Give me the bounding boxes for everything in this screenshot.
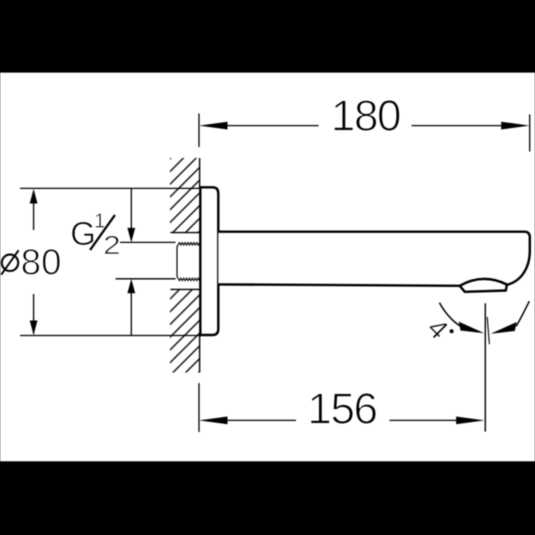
dim ø80: top extension line [20, 187, 199, 189]
dim 180: line right segment [412, 125, 504, 127]
dim 156: left arrow [199, 417, 228, 425]
angle arc left arrowhead [459, 322, 485, 334]
threaded pipe G1/2: top zigzag [178, 243, 200, 245]
dim 180: right arrow [501, 122, 530, 130]
dim 180: left arrow [199, 122, 228, 130]
G1/2 dim: up arrow from thread bottom [127, 279, 135, 294]
dim ø80: lower shaft [33, 294, 35, 334]
wall face line lower [199, 334, 201, 373]
dim ø80: label [1, 242, 61, 283]
svg-text:2: 2 [103, 230, 121, 260]
angle arc right arrowhead [491, 322, 517, 334]
wall hole bottom line [170, 288, 199, 290]
tilted 4-degree line [487, 317, 489, 344]
dim ø80: upper shaft [33, 191, 35, 230]
svg-text:156: 156 [307, 385, 376, 434]
dim 156: left extension line [198, 383, 200, 432]
threaded pipe left edge [177, 245, 178, 278]
threaded pipe G1/2: bottom zigzag [178, 278, 200, 280]
spout body outline [218, 232, 530, 292]
G1/2 dim: upper shaft [130, 188, 132, 230]
svg-text:80: 80 [21, 242, 62, 283]
wall hole top line [170, 232, 199, 234]
wall lower hatch block [170, 290, 200, 373]
dim ø80: down arrow [30, 321, 38, 336]
G1/2 dim: down arrow to thread top [127, 228, 135, 243]
svg-text:180: 180 [331, 92, 400, 141]
G1/2 label [70, 209, 120, 260]
dim 156: line left segment [225, 419, 296, 421]
dim 180: right extension line [529, 114, 531, 151]
dim 180: line left segment [225, 125, 319, 127]
angle arc right segment [516, 301, 529, 326]
dim 156: right arrow [456, 417, 485, 425]
wall upper hatch block [170, 158, 200, 233]
G1/2: bottom pointer line [116, 278, 176, 280]
wall face line upper [199, 158, 201, 188]
outlet axis extension line [484, 303, 486, 431]
dim ø80: bottom extension line [20, 335, 202, 337]
white drawing sheet [0, 73, 535, 462]
dim ø80: up arrow [30, 189, 38, 204]
spout underside hump over aerator [460, 279, 507, 286]
angle arc left segment [439, 303, 460, 326]
G1/2 dim: lower shaft [130, 291, 132, 336]
dim 156: line right segment [390, 419, 460, 421]
degree dot [450, 329, 454, 333]
dim 180: left extension line [198, 114, 200, 148]
G1/2: top pointer line [120, 241, 176, 243]
flange (escutcheon) [200, 187, 218, 335]
